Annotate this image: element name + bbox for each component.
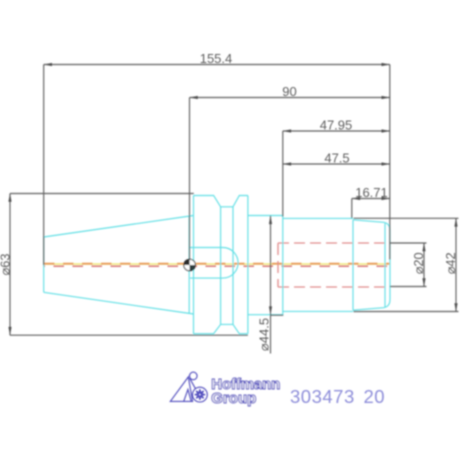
svg-text:20: 20 xyxy=(364,386,386,407)
svg-text:47.95: 47.95 xyxy=(320,117,353,132)
svg-text:16.71: 16.71 xyxy=(355,185,388,200)
svg-text:⌀44.5: ⌀44.5 xyxy=(256,318,271,351)
svg-text:⌀42: ⌀42 xyxy=(443,252,458,274)
svg-text:47.5: 47.5 xyxy=(324,150,349,165)
svg-text:⌀20: ⌀20 xyxy=(411,252,426,274)
svg-text:303473: 303473 xyxy=(290,386,355,407)
svg-text:Group: Group xyxy=(211,390,256,407)
svg-text:155.4: 155.4 xyxy=(200,51,233,66)
svg-text:90: 90 xyxy=(282,84,296,99)
svg-text:⌀63: ⌀63 xyxy=(0,254,12,276)
